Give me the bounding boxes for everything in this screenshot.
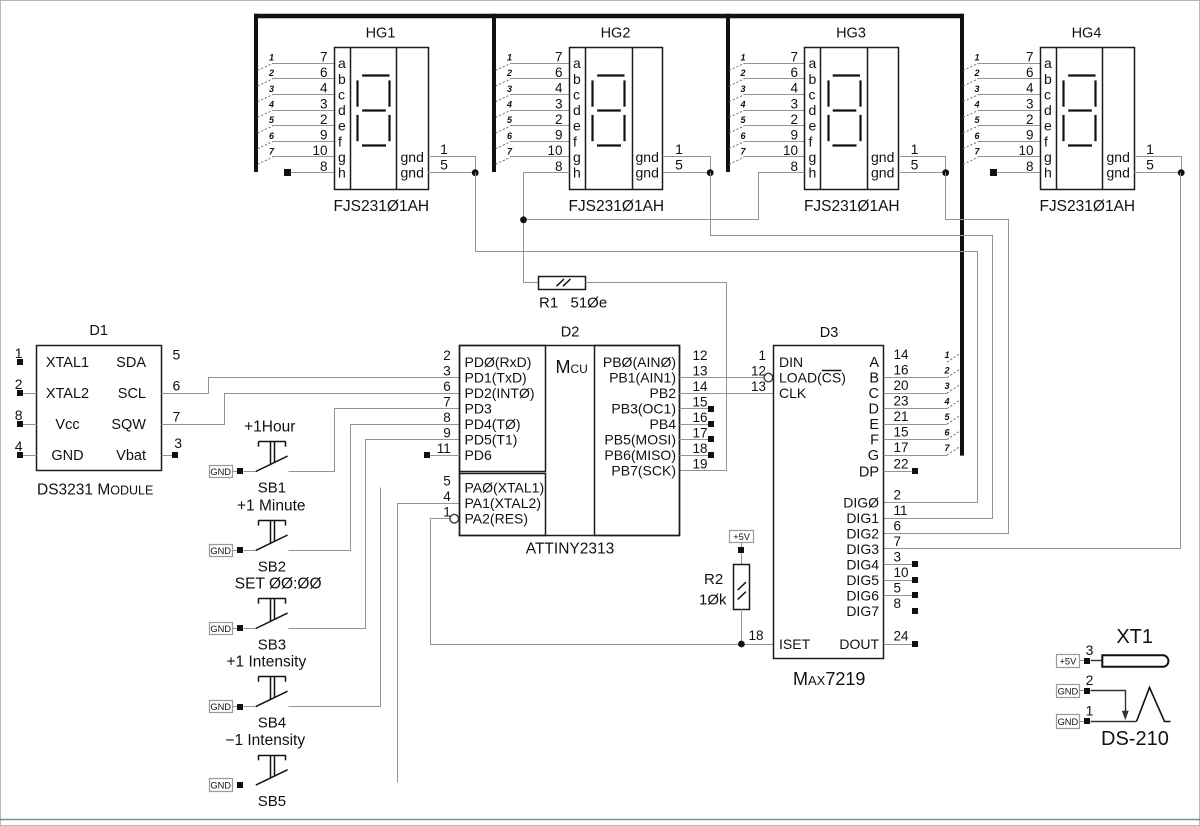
wire D1 SCL pin 6 to ATTINY2313 PD1 pin 3 <box>162 378 460 394</box>
wire HG4 pin 8 (h) stub <box>997 172 1041 174</box>
svg-text:LOAD(CS): LOAD(CS) <box>779 370 846 386</box>
svg-text:+1 Minute: +1 Minute <box>237 497 306 514</box>
svg-text:1: 1 <box>1146 141 1154 157</box>
wire bus tap 4 to HG2 pin 3 (segment d) <box>510 110 569 112</box>
svg-text:g: g <box>1044 149 1052 165</box>
bus tap 6 from D3 segment F <box>947 431 960 439</box>
svg-text:D1: D1 <box>89 323 108 339</box>
ground symbol GND at SB1 <box>210 466 233 478</box>
wire D3 segment D to bus <box>884 408 947 410</box>
svg-text:14: 14 <box>894 347 910 362</box>
svg-text:e: e <box>809 118 817 134</box>
bus tap 3 from D3 segment C <box>947 385 960 393</box>
svg-text:5: 5 <box>440 157 448 173</box>
svg-text:4: 4 <box>739 100 745 110</box>
svg-text:1: 1 <box>675 141 683 157</box>
wire net HG4-gnd to MAX7219 DIG3 <box>884 173 1181 549</box>
svg-text:d: d <box>809 102 817 118</box>
no-connect stub at D2 PB6 pin 18 <box>679 455 708 457</box>
svg-text:19: 19 <box>692 457 707 472</box>
svg-text:9: 9 <box>1026 128 1034 143</box>
svg-text:5: 5 <box>911 157 919 173</box>
svg-text:+1 Intensity: +1 Intensity <box>227 654 307 671</box>
wire SB2 to ATTINY2313 PD4(T0) pin 8 <box>289 425 460 551</box>
svg-text:HG3: HG3 <box>836 26 866 42</box>
svg-text:e: e <box>338 118 346 134</box>
svg-text:GND: GND <box>210 546 231 556</box>
wire net HG1-gnd to MAX7219 DIG0 <box>476 173 978 503</box>
wire D1 SQW pin 7 to ATTINY2313 PD2(INT0) pin 6 <box>162 394 460 425</box>
pin 2 of D1 (no-connect stub) <box>23 393 37 395</box>
svg-text:PB1(AIN1): PB1(AIN1) <box>609 370 676 386</box>
svg-text:17: 17 <box>692 426 707 441</box>
svg-text:D3: D3 <box>820 325 839 341</box>
wire R1 left lead <box>524 282 539 284</box>
svg-text:e: e <box>573 118 581 134</box>
svg-text:g: g <box>338 149 346 165</box>
svg-text:6: 6 <box>320 65 328 80</box>
svg-text:PB3(OC1): PB3(OC1) <box>611 401 676 417</box>
pin square SB3 left contact <box>237 625 243 631</box>
svg-text:B: B <box>869 371 879 387</box>
svg-text:5: 5 <box>173 347 181 363</box>
svg-text:GND: GND <box>210 781 231 791</box>
no-connect stub at D3 DIG6 pin 5 <box>884 595 913 597</box>
svg-text:18: 18 <box>748 628 763 643</box>
svg-text:DIG2: DIG2 <box>846 526 879 542</box>
wire bus tap 3 to HG2 pin 4 (segment c) <box>510 94 569 96</box>
wire bus tap 1 to HG4 pin 7 (segment a) <box>978 63 1041 65</box>
wire node R1-left to HG3 pin 8 (h) <box>524 173 805 220</box>
wire D3 segment F to bus <box>884 439 947 441</box>
svg-text:8: 8 <box>790 159 798 174</box>
svg-text:2: 2 <box>555 112 563 127</box>
svg-text:4: 4 <box>555 81 563 96</box>
push button SB1 <box>256 456 288 471</box>
svg-text:ISET: ISET <box>779 636 811 652</box>
svg-text:2: 2 <box>15 376 23 392</box>
wire bus tap 2 to HG1 pin 6 (segment b) <box>272 78 334 80</box>
svg-text:gnd: gnd <box>636 165 659 181</box>
svg-text:FJS231Ø1AH: FJS231Ø1AH <box>333 198 429 215</box>
ground symbol GND at XT1 pin 2 <box>1057 685 1080 698</box>
svg-text:10: 10 <box>547 143 562 158</box>
wire R2 bottom to ISET junction <box>741 609 743 644</box>
wire HG2 gnd pin 1 to junction <box>663 157 711 173</box>
svg-text:PA1(XTAL2): PA1(XTAL2) <box>465 495 542 511</box>
svg-text:7: 7 <box>173 409 181 425</box>
no-connect stub square at D3 DIG7 pin 8 <box>912 608 918 614</box>
bus tap 7 from D3 segment G <box>947 447 960 455</box>
wire HG3 gnd pin 5 to junction <box>899 172 946 174</box>
svg-text:9: 9 <box>555 128 563 143</box>
svg-text:1: 1 <box>740 53 745 63</box>
svg-text:DIG4: DIG4 <box>846 557 879 573</box>
svg-text:1: 1 <box>911 141 919 157</box>
svg-text:PB7(SCK): PB7(SCK) <box>611 463 676 479</box>
wire D3 segment G to bus <box>884 455 947 457</box>
svg-text:2: 2 <box>443 348 451 363</box>
svg-text:f: f <box>338 133 342 149</box>
svg-text:9: 9 <box>790 128 798 143</box>
svg-text:A: A <box>869 355 879 371</box>
svg-text:SCL: SCL <box>118 386 146 402</box>
svg-text:16: 16 <box>894 363 909 378</box>
svg-text:DP: DP <box>859 464 879 480</box>
no-connect stub at D3 DOUT pin 24 <box>884 644 913 646</box>
svg-text:11: 11 <box>437 441 451 456</box>
svg-text:9: 9 <box>320 128 328 143</box>
wire bus tap 5 to HG3 pin 2 (segment e) <box>744 125 805 127</box>
no-connect stub at D2 PB3 pin 15 <box>679 408 708 410</box>
svg-text:FJS231Ø1AH: FJS231Ø1AH <box>1039 198 1135 215</box>
wire bus tap 5 to HG4 pin 2 (segment e) <box>978 125 1041 127</box>
wire bus tap 3 to HG3 pin 4 (segment c) <box>744 94 805 96</box>
svg-text:gnd: gnd <box>1107 165 1130 181</box>
svg-text:b: b <box>573 71 581 87</box>
wire XT1 pin 2 with insertion arrow <box>1091 691 1126 715</box>
wire bus tap 5 to HG1 pin 2 (segment e) <box>272 125 334 127</box>
svg-text:ATTINY2313: ATTINY2313 <box>526 541 614 558</box>
svg-text:23: 23 <box>894 394 909 409</box>
pin 4 of D1 (no-connect stub) <box>23 455 37 457</box>
wire D3 segment B to bus <box>884 377 947 379</box>
wire bus tap 7 to HG4 pin 10 (segment g) <box>978 156 1041 158</box>
wire bus tap 4 to HG1 pin 3 (segment d) <box>272 110 334 112</box>
svg-text:F: F <box>870 433 879 449</box>
svg-text:18: 18 <box>692 441 707 456</box>
svg-text:11: 11 <box>894 503 908 518</box>
svg-text:a: a <box>809 55 817 71</box>
svg-text:6: 6 <box>555 65 563 80</box>
svg-text:3: 3 <box>1086 642 1094 658</box>
wire ATTINY2313 PA1(XTAL2) pin 4 riser <box>398 504 460 783</box>
svg-text:2: 2 <box>1026 112 1034 127</box>
wire segment-bus vertical rail for HG1 <box>254 14 258 172</box>
wire segment-bus vertical rail for HG3 <box>726 14 730 172</box>
svg-text:GND: GND <box>1058 717 1079 727</box>
svg-text:PD4(TØ): PD4(TØ) <box>465 416 521 432</box>
7-segment digit glyph inside HG4 <box>1068 74 1095 76</box>
svg-text:7: 7 <box>320 49 328 64</box>
7-segment digit glyph inside HG1 <box>362 74 389 76</box>
wire SB3 to ATTINY2313 PD5(T1) pin 9 <box>289 440 460 629</box>
display HG1 FJS23101AH 7-segment indicator <box>335 48 429 190</box>
svg-text:9: 9 <box>443 426 451 441</box>
wire bus tap 6 to HG3 pin 9 (segment f) <box>744 141 805 143</box>
bus tap 4 from D3 segment D <box>947 400 960 408</box>
svg-text:7: 7 <box>790 49 798 64</box>
wire GND square to SB1 contact <box>244 471 256 473</box>
svg-text:GND: GND <box>210 702 231 712</box>
wire segment-bus top rail <box>254 14 964 19</box>
svg-text:1: 1 <box>507 53 512 63</box>
bus tap 5 from D3 segment E <box>947 416 960 424</box>
junction HG2 gnd <box>707 169 714 176</box>
wire net HG3-gnd to MAX7219 DIG2 <box>884 173 1009 534</box>
svg-text:5: 5 <box>894 581 902 596</box>
wire HG4 gnd pin 1 to junction <box>1135 157 1182 173</box>
pin square XT1 pin 3 <box>1084 658 1090 664</box>
svg-text:SB1: SB1 <box>258 480 286 497</box>
wire HG1 gnd pin 5 to junction <box>428 172 475 174</box>
display HG3 FJS23101AH 7-segment indicator <box>805 48 899 190</box>
svg-text:FJS231Ø1AH: FJS231Ø1AH <box>804 198 900 215</box>
wire HG2 gnd pin 5 to junction <box>663 172 710 174</box>
ground symbol GND at SB2 <box>210 545 233 557</box>
svg-text:15: 15 <box>692 395 707 410</box>
wire bus tap 7 to HG2 pin 10 (segment g) <box>510 156 569 158</box>
wire bus tap 1 to HG2 pin 7 (segment a) <box>510 63 569 65</box>
svg-text:2: 2 <box>790 112 798 127</box>
svg-text:13: 13 <box>692 364 707 379</box>
pin square SB1 left contact <box>237 468 243 474</box>
wire HG1 pin 8 (h) stub <box>291 172 335 174</box>
svg-text:5: 5 <box>675 157 683 173</box>
svg-text:3: 3 <box>894 550 902 565</box>
wire GND square to SB3 contact <box>244 628 256 630</box>
svg-text:21: 21 <box>894 409 909 424</box>
svg-text:24: 24 <box>894 629 910 644</box>
svg-text:3: 3 <box>1026 96 1034 111</box>
svg-text:2: 2 <box>320 112 328 127</box>
svg-text:DIG3: DIG3 <box>846 541 879 557</box>
svg-text:PB6(MISO): PB6(MISO) <box>604 447 676 463</box>
svg-text:12: 12 <box>751 364 766 379</box>
wire bus tap 7 to HG3 pin 10 (segment g) <box>744 156 805 158</box>
svg-text:h: h <box>573 165 581 181</box>
svg-text:8: 8 <box>894 596 902 611</box>
svg-text:b: b <box>809 71 817 87</box>
svg-text:PA2(RES): PA2(RES) <box>465 511 529 527</box>
resistor R1 <box>539 277 586 290</box>
wire bus tap 3 to HG4 pin 4 (segment c) <box>978 94 1041 96</box>
no-connect stub square at HG1 pin 8 (h) <box>284 169 291 176</box>
svg-text:10: 10 <box>1018 143 1033 158</box>
svg-text:10: 10 <box>783 143 798 158</box>
svg-text:d: d <box>573 102 581 118</box>
svg-text:PDØ(RxD): PDØ(RxD) <box>465 354 532 370</box>
svg-text:HG4: HG4 <box>1072 26 1102 42</box>
barrel center-pin contact of XT1 <box>1102 655 1168 667</box>
svg-text:c: c <box>338 86 345 102</box>
svg-text:3: 3 <box>944 381 949 391</box>
no-connect stub at D3 DIG4 pin 3 <box>884 564 913 566</box>
svg-text:PD1(TxD): PD1(TxD) <box>465 370 527 386</box>
svg-text:6: 6 <box>173 378 181 394</box>
svg-text:PB2: PB2 <box>650 385 677 401</box>
svg-text:gnd: gnd <box>871 149 894 165</box>
svg-text:6: 6 <box>790 65 798 80</box>
svg-text:3: 3 <box>269 84 274 94</box>
svg-text:DIGØ: DIGØ <box>843 495 879 511</box>
svg-text:PBØ(AINØ): PBØ(AINØ) <box>603 354 676 370</box>
wire bus tap 3 to HG1 pin 4 (segment c) <box>272 94 334 96</box>
svg-text:6: 6 <box>443 379 451 394</box>
svg-text:PB5(MOSI): PB5(MOSI) <box>604 432 676 448</box>
svg-text:a: a <box>573 55 581 71</box>
svg-text:PB4: PB4 <box>650 416 677 432</box>
svg-text:C: C <box>869 386 879 402</box>
svg-text:gnd: gnd <box>871 165 894 181</box>
svg-text:2: 2 <box>506 68 512 78</box>
wire +5V to R2 top <box>741 553 743 565</box>
svg-text:a: a <box>1044 55 1052 71</box>
svg-text:4: 4 <box>320 81 328 96</box>
svg-text:7: 7 <box>443 395 451 410</box>
wire bus tap 4 to HG4 pin 3 (segment d) <box>978 110 1041 112</box>
no-connect stub at D2 PB5 pin 17 <box>679 439 708 441</box>
svg-text:f: f <box>573 133 577 149</box>
svg-text:FJS231Ø1AH: FJS231Ø1AH <box>568 198 664 215</box>
wire XT1 pin 3 to barrel contact <box>1091 660 1103 662</box>
svg-text:−1 Intensity: −1 Intensity <box>225 732 305 749</box>
wire bus tap 2 to HG4 pin 6 (segment b) <box>978 78 1041 80</box>
wire ATTINY2313 PA2(RES) pin 1 to MAX7219 ISET pin 18 <box>431 519 774 645</box>
svg-text:3: 3 <box>790 96 798 111</box>
svg-text:8: 8 <box>15 407 23 423</box>
svg-text:PD5(T1): PD5(T1) <box>465 432 518 448</box>
svg-text:3: 3 <box>555 96 563 111</box>
svg-text:d: d <box>338 102 346 118</box>
svg-text:c: c <box>573 86 580 102</box>
svg-text:10: 10 <box>894 565 909 580</box>
pin square SB2 left contact <box>237 547 243 553</box>
junction h-net at R1 branch <box>520 216 527 223</box>
svg-text:GND: GND <box>210 624 231 634</box>
svg-text:20: 20 <box>894 378 909 393</box>
no-connect stub at D2 PD6 pin 11 <box>424 452 430 458</box>
svg-text:e: e <box>1044 118 1052 134</box>
wire net HG2-gnd to MAX7219 DIG1 <box>711 173 993 519</box>
svg-text:h: h <box>338 165 346 181</box>
svg-text:gnd: gnd <box>1107 149 1130 165</box>
wire R1 right lead to ATTINY2313 PB7(SCK) pin 19 <box>586 283 727 471</box>
svg-text:DIG5: DIG5 <box>846 572 879 588</box>
spring contact of XT1 <box>1137 688 1171 722</box>
wire GND square to SB2 contact <box>244 550 256 552</box>
svg-text:4: 4 <box>268 100 274 110</box>
MCU D2 ATTINY2313 box <box>460 346 680 536</box>
push button SB3 <box>256 613 288 628</box>
svg-text:10: 10 <box>312 143 327 158</box>
wire ATTINY2313 PB2 pin 14 to MAX7219 CLK pin 13 <box>679 393 774 395</box>
svg-text:b: b <box>338 71 346 87</box>
wire bus tap 6 to HG2 pin 9 (segment f) <box>510 141 569 143</box>
wire bus tap 4 to HG3 pin 3 (segment d) <box>744 110 805 112</box>
svg-text:5: 5 <box>1146 157 1154 173</box>
pin 1 of D1 (no-connect stub) <box>17 359 23 365</box>
svg-text:HG2: HG2 <box>601 26 631 42</box>
7-segment digit glyph inside HG3 <box>833 74 860 76</box>
svg-text:d: d <box>1044 102 1052 118</box>
svg-text:3: 3 <box>974 84 979 94</box>
pin square XT1 pin 1 <box>1084 718 1090 724</box>
junction HG3 gnd <box>942 169 949 176</box>
svg-text:8: 8 <box>443 410 451 425</box>
svg-text:7: 7 <box>1026 49 1034 64</box>
junction at MAX7219 ISET <box>738 641 745 648</box>
power flag +5V at XT1 pin 3 <box>1057 655 1080 668</box>
svg-text:51Øe: 51Øe <box>571 295 608 312</box>
svg-text:f: f <box>809 133 813 149</box>
pin square XT1 pin 2 <box>1084 688 1090 694</box>
svg-text:R1: R1 <box>539 295 558 312</box>
push button SB2 <box>256 535 288 550</box>
svg-text:PD2(INTØ): PD2(INTØ) <box>465 385 535 401</box>
svg-text:1: 1 <box>269 53 274 63</box>
svg-text:SB2: SB2 <box>258 558 286 575</box>
module D1 DS3231 box <box>37 346 162 471</box>
svg-text:GND: GND <box>1058 686 1079 696</box>
svg-text:14: 14 <box>692 379 708 394</box>
svg-text:g: g <box>809 149 817 165</box>
svg-text:3: 3 <box>443 364 451 379</box>
svg-text:gnd: gnd <box>401 165 424 181</box>
svg-text:4: 4 <box>790 81 798 96</box>
svg-text:8: 8 <box>555 159 563 174</box>
display HG2 FJS23101AH 7-segment indicator <box>570 48 663 190</box>
svg-text:3: 3 <box>507 84 512 94</box>
no-connect stub at D2 PB4 pin 16 <box>679 424 708 426</box>
svg-text:c: c <box>809 86 816 102</box>
7-segment digit glyph inside HG2 <box>597 74 624 76</box>
svg-text:4: 4 <box>15 438 23 454</box>
svg-text:XTAL1: XTAL1 <box>46 355 89 371</box>
svg-text:4: 4 <box>1026 81 1034 96</box>
svg-text:SET ØØ:ØØ: SET ØØ:ØØ <box>235 576 322 593</box>
svg-text:HG1: HG1 <box>366 26 396 42</box>
wire segment-bus main vertical rail (MAX7219 to displays) <box>960 14 964 456</box>
svg-text:PD3: PD3 <box>465 401 492 417</box>
svg-text:1: 1 <box>440 141 448 157</box>
svg-text:16: 16 <box>692 410 707 425</box>
svg-text:8: 8 <box>1026 159 1034 174</box>
ground symbol GND at SB4 <box>210 701 233 713</box>
pin square SB5 left contact <box>237 782 243 788</box>
svg-text:1: 1 <box>758 348 766 363</box>
wire XT1 pin 1 to spring contact <box>1091 721 1137 723</box>
no-connect stub at D3 DIG5 pin 10 <box>884 580 913 582</box>
wire HG1 gnd pin 1 to junction <box>429 157 476 173</box>
svg-text:4: 4 <box>443 489 451 504</box>
wire bus tap 1 to HG1 pin 7 (segment a) <box>272 63 334 65</box>
pin 3 of D1 Vbat (no-connect stub) <box>162 455 172 457</box>
svg-text:b: b <box>1044 71 1052 87</box>
svg-text:D2: D2 <box>561 324 580 340</box>
wire bus tap 7 to HG1 pin 10 (segment g) <box>272 156 334 158</box>
ground symbol GND at SB3 <box>210 623 233 635</box>
pin 8 of D1 (no-connect stub) <box>23 424 37 426</box>
wire HG2 pin 8 (h) to node R1-left <box>524 173 570 283</box>
svg-text:R2: R2 <box>704 571 723 588</box>
svg-text:f: f <box>1044 133 1048 149</box>
svg-text:SQW: SQW <box>111 417 146 433</box>
svg-text:DIG6: DIG6 <box>846 588 879 604</box>
svg-text:GND: GND <box>210 467 231 477</box>
svg-text:D: D <box>869 402 879 418</box>
ground symbol GND at SB5 <box>210 779 233 792</box>
pin square +5V at R2 <box>738 547 744 553</box>
svg-text:DS3231 MODULE: DS3231 MODULE <box>37 481 153 498</box>
bus tap 1 from D3 segment A <box>947 354 960 362</box>
svg-text:a: a <box>338 55 346 71</box>
junction HG1 gnd <box>472 169 479 176</box>
inversion bubble at MAX7219 LOAD(CS) <box>764 373 773 382</box>
wire HG3 gnd pin 1 to junction <box>899 157 946 173</box>
svg-text:Vbat: Vbat <box>116 448 146 464</box>
svg-text:13: 13 <box>751 379 766 394</box>
